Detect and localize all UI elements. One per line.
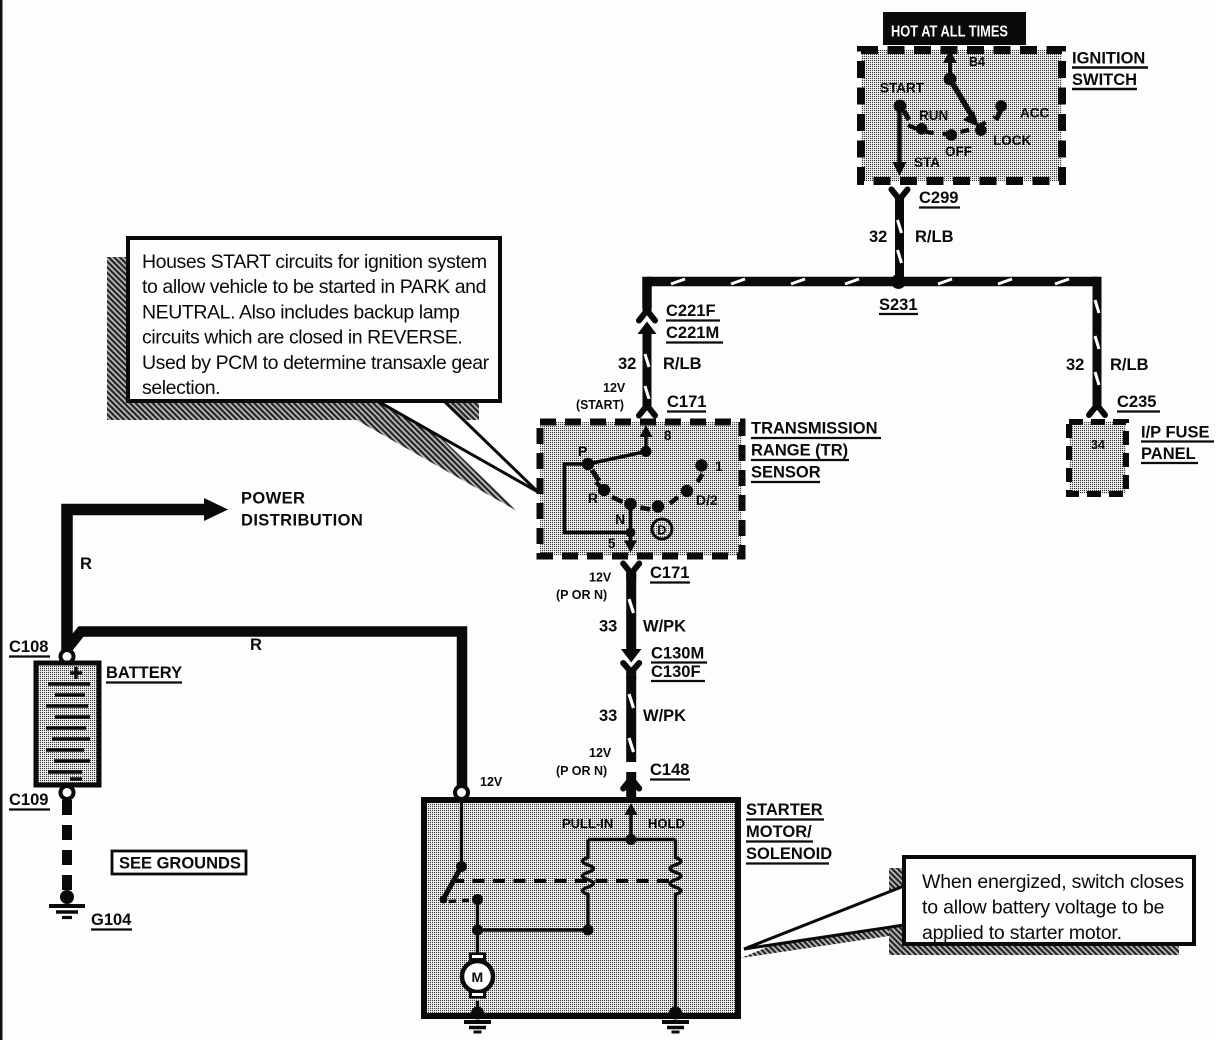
svg-text:HOT AT ALL TIMES: HOT AT ALL TIMES (891, 24, 1008, 41)
svg-text:12V: 12V (603, 381, 626, 395)
svg-text:POWER: POWER (241, 490, 305, 508)
TR sensor contact D2pos (652, 500, 664, 512)
solenoid switch wire from 12V terminal (456, 799, 467, 872)
note callout box (TR sensor note) (128, 238, 500, 401)
svg-text:33: 33 (599, 618, 617, 636)
connector C235 (female fork down) (1089, 393, 1160, 415)
TR sensor D position circle (652, 519, 672, 539)
svg-text:R: R (250, 636, 262, 654)
TR sensor contact N (615, 498, 637, 527)
svg-text:C130M: C130M (651, 645, 704, 663)
ground at starter motor (464, 1007, 491, 1033)
ignition switch rotor wiper B4-to-LOCK (950, 79, 979, 127)
svg-text:(P OR N): (P OR N) (556, 764, 607, 778)
svg-text:C299: C299 (919, 189, 958, 207)
svg-text:R: R (80, 555, 92, 573)
wire C130F to C148 (33 W/PK) (556, 676, 686, 778)
svg-text:N: N (615, 511, 625, 527)
solenoid switch contact dashes (449, 900, 472, 902)
svg-text:I/P FUSE: I/P FUSE (1141, 424, 1209, 442)
svg-text:R/LB: R/LB (663, 355, 702, 373)
svg-text:selection.: selection. (142, 377, 220, 399)
svg-text:SWITCH: SWITCH (1072, 71, 1137, 89)
svg-text:NEUTRAL. Also includes backup: NEUTRAL. Also includes backup lamp (142, 301, 460, 323)
ignition switch contact START (880, 81, 925, 121)
solenoid coil top wire (588, 834, 676, 845)
TR sensor wire pin8 to P (588, 452, 646, 465)
label TRANSMISSION RANGE (TR) SENSOR (751, 420, 881, 483)
C148 entry arrow into solenoid (625, 782, 638, 840)
note callout box (starter note) (904, 857, 1194, 944)
TR sensor wire N to pin 5 arrow (608, 504, 637, 553)
svg-text:IGNITION: IGNITION (1072, 50, 1145, 68)
note callout shadow (starter note) (741, 868, 1179, 958)
ignition switch terminal B4 arrow (943, 50, 957, 79)
svg-text:34: 34 (1091, 438, 1105, 452)
svg-text:C171: C171 (667, 393, 706, 411)
connector C299 (female fork) (892, 189, 961, 208)
connector C130M (male arrow down) (621, 645, 707, 663)
connector C109 (9, 786, 74, 810)
svg-text:OFF: OFF (945, 144, 972, 159)
starter motor/solenoid box (424, 800, 738, 1016)
ignition switch contact arc dashes (908, 117, 995, 134)
starter motor M (462, 930, 493, 1013)
svg-text:PULL-IN: PULL-IN (562, 816, 613, 831)
battery (36, 663, 99, 785)
svg-text:SEE GROUNDS: SEE GROUNDS (119, 855, 241, 873)
TR sensor contact R (588, 484, 610, 506)
svg-text:START: START (880, 81, 925, 96)
TR sensor contact P (578, 443, 599, 481)
svg-text:32: 32 (1066, 356, 1084, 374)
wire C171 to C130M (33 W/PK) (599, 573, 686, 649)
svg-text:C221F: C221F (666, 302, 716, 320)
label STARTER MOTOR/ SOLENOID (746, 801, 832, 864)
svg-text:applied to starter motor.: applied to starter motor. (922, 922, 1122, 944)
svg-text:to allow vehicle to be started: to allow vehicle to be started in PARK a… (142, 276, 486, 298)
svg-text:M: M (472, 969, 484, 985)
connector C221F (female fork down) (639, 302, 720, 321)
HOT AT ALL TIMES banner (883, 12, 1026, 45)
svg-text:W/PK: W/PK (643, 618, 686, 636)
ignition switch box (861, 50, 1062, 181)
svg-text:DISTRIBUTION: DISTRIBUTION (241, 512, 363, 530)
svg-text:C108: C108 (9, 638, 48, 656)
svg-text:C148: C148 (650, 761, 689, 779)
label BATTERY (106, 664, 182, 683)
note callout pointer (TR sensor note) (374, 399, 538, 492)
svg-text:When energized, switch closes: When energized, switch closes (922, 871, 1184, 893)
I/P fuse panel box (1069, 422, 1126, 494)
connector C148 (female fork down) (623, 761, 690, 789)
svg-text:1: 1 (715, 459, 723, 474)
connector C108 (9, 638, 74, 663)
svg-text:(START): (START) (576, 398, 624, 412)
svg-text:SENSOR: SENSOR (751, 464, 821, 482)
svg-text:R/LB: R/LB (915, 228, 954, 246)
svg-text:C130F: C130F (651, 663, 701, 681)
svg-text:RUN: RUN (919, 108, 948, 123)
note callout pointer (starter note) (744, 886, 904, 949)
svg-text:C221M: C221M (666, 324, 719, 342)
svg-text:33: 33 (599, 707, 617, 725)
ground G104 (49, 890, 132, 930)
svg-text:P: P (578, 443, 587, 459)
label POWER DISTRIBUTION (241, 490, 363, 530)
svg-text:TRANSMISSION: TRANSMISSION (751, 420, 878, 438)
svg-text:to allow battery voltage to be: to allow battery voltage to be (922, 897, 1164, 919)
TR sensor contact arc dashes (596, 474, 703, 510)
svg-text:ACC: ACC (1020, 106, 1049, 121)
TR sensor wire P to pin 5 (565, 464, 631, 533)
connector C171 lower (female fork up) (556, 564, 690, 603)
note callout shadow (TR sensor note) (107, 257, 517, 511)
svg-text:W/PK: W/PK (643, 707, 686, 725)
svg-text:SOLENOID: SOLENOID (746, 845, 832, 863)
TR sensor pin 8 arrow (640, 425, 673, 452)
ignition switch contact OFF (945, 129, 972, 159)
solenoid plunger dashed link (452, 879, 676, 883)
wire bus left leg down to C221F (642, 277, 652, 308)
connector C221M (male arrow up) (638, 322, 724, 343)
12V terminal circle on starter box (455, 775, 503, 799)
svg-text:5: 5 (608, 536, 616, 551)
pull-in coil (583, 840, 594, 931)
wire switch contact to coil bottom (472, 900, 594, 936)
hold coil (670, 840, 681, 1014)
svg-text:STARTER: STARTER (746, 801, 823, 819)
solenoid switch contact node (472, 894, 483, 905)
ignition switch contact ACC (995, 100, 1049, 120)
svg-text:R: R (588, 490, 598, 506)
wire battery to starter solenoid (R) (67, 632, 462, 788)
splice S231 bus wire (647, 279, 1097, 284)
svg-text:32: 32 (618, 355, 636, 373)
svg-text:(P OR N): (P OR N) (556, 588, 607, 602)
svg-text:LOCK: LOCK (993, 133, 1031, 148)
svg-text:PANEL: PANEL (1141, 445, 1196, 463)
label IGNITION SWITCH (1072, 50, 1148, 90)
svg-text:BATTERY: BATTERY (106, 664, 182, 682)
SEE GROUNDS note box (112, 851, 246, 874)
svg-text:12V: 12V (589, 746, 612, 760)
TR sensor contact D/2 (681, 485, 718, 508)
connector C171 upper (female fork down) (639, 393, 706, 416)
svg-text:C109: C109 (9, 791, 48, 809)
svg-text:32: 32 (869, 228, 887, 246)
svg-text:D: D (657, 523, 666, 538)
svg-text:S231: S231 (879, 296, 918, 314)
page left border line (0, 0, 3, 1040)
wire bus right leg down to C235 (32 R/LB) (1066, 277, 1149, 404)
label I/P FUSE PANEL (1141, 424, 1214, 464)
svg-text:8: 8 (664, 428, 672, 443)
wire C299 to S231 (32 R/LB) (869, 201, 954, 276)
TR sensor contact 1 (695, 459, 723, 474)
svg-text:C171: C171 (650, 564, 689, 582)
solenoid switch arm (440, 869, 461, 904)
svg-text:12V: 12V (589, 571, 612, 585)
wire battery to power distribution (R) (67, 498, 228, 650)
svg-text:STA: STA (914, 155, 940, 170)
connector C130F (female fork up) (623, 663, 705, 681)
svg-text:12V: 12V (480, 775, 503, 789)
ignition switch contact RUN (916, 108, 948, 135)
svg-text:G104: G104 (91, 911, 132, 929)
splice node S231 (879, 274, 918, 314)
ignition switch START-STA arrow (893, 108, 941, 176)
labels PULL-IN and HOLD (562, 816, 685, 831)
svg-text:R/LB: R/LB (1110, 356, 1149, 374)
TR sensor node pin8 junction (641, 446, 652, 457)
ignition switch contact LOCK (975, 124, 1031, 148)
wire C221M to C171 (32 R/LB) (576, 331, 702, 412)
ignition switch node B4 (944, 55, 985, 85)
svg-text:RANGE (TR): RANGE (TR) (751, 442, 848, 460)
wire battery negative to ground (dashed) (62, 800, 72, 890)
svg-text:B4: B4 (969, 55, 985, 69)
svg-text:C235: C235 (1117, 393, 1156, 411)
transmission range sensor box (540, 422, 742, 556)
svg-text:HOLD: HOLD (648, 816, 685, 831)
svg-text:Used by PCM to determine trans: Used by PCM to determine transaxle gear (142, 352, 490, 374)
svg-text:circuits which are closed in R: circuits which are closed in REVERSE. (142, 327, 462, 349)
svg-text:Houses START circuits for igni: Houses START circuits for ignition syste… (142, 251, 487, 273)
svg-text:D/2: D/2 (696, 492, 718, 508)
svg-text:MOTOR/: MOTOR/ (746, 823, 812, 841)
ground at hold coil (662, 1007, 689, 1033)
